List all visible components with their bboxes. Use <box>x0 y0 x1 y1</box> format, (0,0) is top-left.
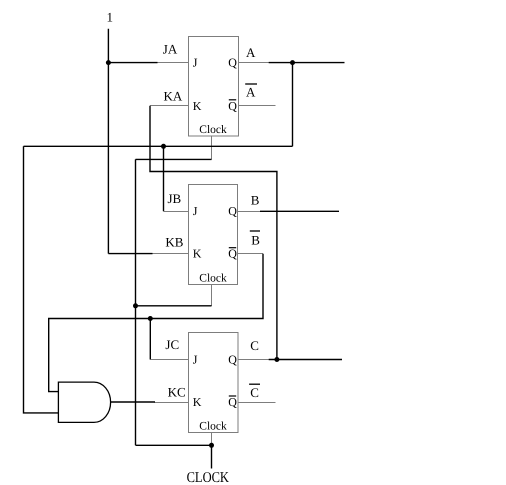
svg-text:CLOCK: CLOCK <box>187 469 229 485</box>
svg-text:B: B <box>251 232 260 247</box>
wire: clock branch to FF B <box>136 305 212 307</box>
wire: A net down from QA <box>292 63 294 147</box>
overbar of U1 Qbar pin <box>229 99 236 101</box>
svg-text:Q: Q <box>228 247 237 261</box>
node: 1/JA junction <box>106 60 111 65</box>
flip-flop U1 pin labels <box>193 56 238 137</box>
wire: QbarB feedback down and left <box>49 254 263 392</box>
svg-text:JC: JC <box>165 337 179 352</box>
flip-flop U2 pin labels <box>193 204 238 284</box>
flip-flop U3 pin stubs <box>150 360 275 446</box>
wire: 1 source vertical (JA/KB net) <box>107 29 109 254</box>
wire: A net horizontal <box>24 145 293 147</box>
svg-text:C: C <box>250 385 259 400</box>
wire: CLOCK input stem <box>211 445 213 468</box>
node: C output junction <box>274 357 279 362</box>
AND gate G1 <box>58 382 110 422</box>
svg-text:Q: Q <box>228 204 237 218</box>
svg-text:J: J <box>193 204 198 218</box>
svg-text:A: A <box>246 45 256 60</box>
wire: to KB pin <box>108 253 152 255</box>
svg-text:K: K <box>193 247 202 261</box>
flip-flop U3 pin labels <box>193 352 238 432</box>
svg-text:Clock: Clock <box>199 421 227 433</box>
flip-flop U2 (B) box <box>189 185 238 285</box>
wire: A net down left side to AND input <box>24 146 59 413</box>
svg-text:KA: KA <box>164 89 183 104</box>
overbar of U3 Qbar pin <box>229 395 236 397</box>
node: CLOCK input junction <box>209 443 214 448</box>
wires (black) <box>24 29 345 469</box>
svg-text:Clock: Clock <box>199 124 227 136</box>
wire: QC output to C <box>269 359 342 361</box>
wire: A net branch down to JB <box>163 146 165 211</box>
wire: KA feedback from QC: up segment <box>150 106 277 360</box>
svg-text:JB: JB <box>168 191 182 206</box>
wire: QA output to A <box>269 62 345 64</box>
flip-flop U1 pin stubs <box>150 63 276 160</box>
svg-text:1: 1 <box>107 10 114 25</box>
overbar of U2 Qbar pin <box>229 247 236 249</box>
svg-text:Q: Q <box>228 56 237 70</box>
wire: QB output to B <box>260 210 339 212</box>
node: A net to JB junction <box>161 144 166 149</box>
svg-text:JA: JA <box>163 41 178 56</box>
svg-text:Clock: Clock <box>199 272 227 284</box>
svg-text:Q: Q <box>228 99 237 113</box>
svg-text:KB: KB <box>165 235 183 250</box>
flip-flop U2 pin stubs <box>152 212 263 307</box>
wire: AND output to KC <box>111 401 155 403</box>
svg-text:B: B <box>251 192 260 207</box>
svg-text:K: K <box>193 99 202 113</box>
svg-text:K: K <box>193 395 202 409</box>
node: clock trunk to FF B junction <box>133 303 138 308</box>
svg-text:Q: Q <box>228 395 237 409</box>
svg-text:Q: Q <box>228 352 237 366</box>
node: A output junction <box>290 60 295 65</box>
node: Bbar net to JC junction <box>148 316 153 321</box>
svg-text:J: J <box>193 56 198 70</box>
wire: clock bottom horizontal <box>136 444 212 446</box>
wire: clock vertical trunk <box>135 159 137 445</box>
flip-flop U3 (C) box <box>189 333 239 433</box>
svg-text:J: J <box>193 352 198 366</box>
svg-text:A: A <box>246 85 256 100</box>
wire: to JA pin <box>108 62 157 64</box>
wire: clock horizontal to FF A <box>136 158 212 160</box>
wire: Bbar net branch down to JC <box>149 319 151 360</box>
flip-flop U1 (A) box <box>189 37 239 137</box>
svg-text:KC: KC <box>168 385 186 400</box>
svg-text:C: C <box>250 338 259 353</box>
